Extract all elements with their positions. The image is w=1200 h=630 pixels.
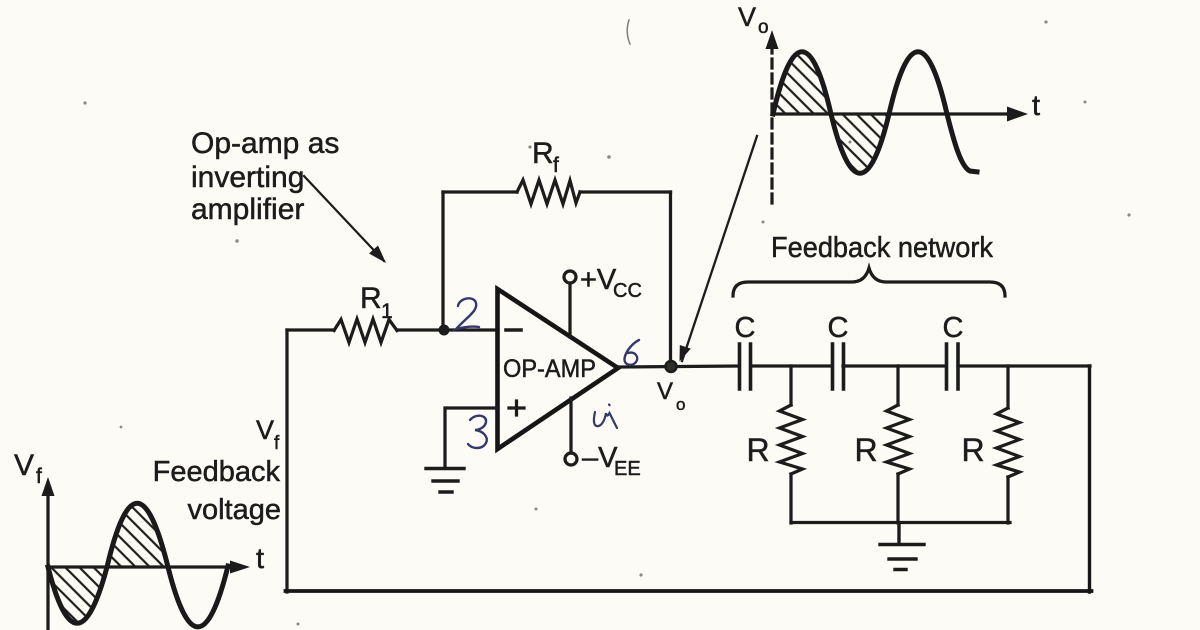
svg-text:f: f: [36, 465, 42, 488]
svg-text:o: o: [758, 17, 769, 38]
Vf waveform horizontal axis: [48, 565, 234, 568]
svg-text:t: t: [256, 543, 264, 575]
svg-text:R: R: [746, 432, 769, 468]
wire: input to op-amp: [397, 328, 498, 331]
capacitor C3: [947, 344, 959, 389]
Vf waveform sine curve: [48, 503, 228, 627]
Vf waveform hatched areas: [48, 503, 168, 623]
pointer line from node to waveform: [682, 136, 757, 361]
terminal circle +Vcc: [564, 271, 576, 283]
svg-text:+V: +V: [580, 264, 617, 296]
svg-text:OP-AMP: OP-AMP: [503, 355, 596, 383]
wire: input segment: [287, 328, 334, 331]
op-amp U1 triangle: [498, 289, 619, 449]
wire: R3 bottom lead: [1006, 477, 1009, 523]
ground (feedback network): [880, 523, 924, 570]
svg-text:Feedback network: Feedback network: [771, 232, 993, 264]
svg-text:CC: CC: [613, 280, 642, 302]
svg-text:–V: –V: [582, 442, 618, 474]
resistor R1: [334, 319, 397, 343]
svg-text:f: f: [553, 154, 559, 177]
handwritten pin number 2: [456, 298, 479, 329]
svg-text:o: o: [676, 395, 685, 414]
resistor R (3rd, vertical): [997, 408, 1020, 477]
wire: tap to R (1st): [789, 366, 792, 405]
wire: feedback left vertical: [441, 192, 444, 330]
wire: feedback right vertical to output node: [669, 192, 672, 366]
wire: R1 bottom lead: [789, 474, 792, 523]
wire: non-inverting input to ground: [445, 408, 498, 468]
Vf waveform axis label: [14, 449, 42, 488]
svg-text:inverting: inverting: [191, 161, 304, 194]
svg-text:R: R: [360, 282, 382, 315]
handwritten pin number 3: [468, 416, 487, 448]
wire: output bus through capacitors: [751, 364, 1090, 367]
wire: right rail: [1088, 366, 1091, 592]
op-amp minus input sign: [506, 328, 521, 332]
annotation arrow to op-amp: [304, 176, 384, 261]
svg-text:voltage: voltage: [187, 494, 281, 526]
wire: feedback top right: [580, 190, 671, 193]
svg-text:C: C: [735, 312, 756, 344]
label -Vee: [582, 442, 641, 480]
wire: bottom rail: [286, 589, 1092, 593]
terminal circle -Vee: [565, 453, 577, 465]
svg-text:EE: EE: [614, 458, 641, 480]
svg-text:R: R: [854, 432, 877, 468]
capacitor C1: [740, 344, 751, 389]
resistor Rf: [517, 180, 580, 204]
svg-text:V: V: [256, 415, 274, 445]
handwritten check squiggle: [594, 405, 617, 429]
svg-text:R: R: [532, 137, 554, 170]
svg-text:f: f: [274, 433, 280, 454]
wire: output from op-amp: [618, 366, 739, 367]
wire: tap to R (3rd): [1006, 366, 1009, 408]
wire: R2 bottom lead: [896, 474, 899, 523]
capacitor C2: [833, 344, 844, 389]
wire: feedback top left: [443, 190, 517, 193]
handwritten pin number 6: [624, 340, 639, 365]
ground (op-amp + input): [426, 469, 464, 493]
svg-text:C: C: [828, 312, 849, 344]
op-amp plus input sign: [509, 401, 524, 415]
label "Feedback voltage": [153, 456, 281, 526]
svg-text:V: V: [657, 378, 673, 405]
svg-text:V: V: [738, 2, 756, 32]
svg-text:Feedback: Feedback: [153, 456, 281, 488]
label +Vcc: [580, 264, 642, 302]
annotation text "Op-amp as inverting amplifier": [191, 127, 339, 226]
Vo waveform horizontal axis: [772, 112, 1012, 115]
svg-text:1: 1: [381, 300, 393, 323]
label R1: [360, 282, 393, 323]
faint crease mark: [627, 20, 630, 44]
Vo waveform vertical dashed axis: [770, 44, 773, 209]
Vf waveform vertical axis: [46, 490, 49, 630]
svg-text:Op-amp as: Op-amp as: [191, 127, 339, 160]
node junction dot (pin 2 node): [439, 325, 450, 336]
label Rf: [532, 137, 559, 177]
svg-text:R: R: [961, 432, 984, 468]
wire: -Vee supply lead: [569, 398, 572, 452]
wire: +Vcc supply lead: [568, 284, 571, 337]
wire: bottom bus of feedback network: [791, 521, 1010, 524]
wire: tap to R (2nd): [896, 366, 899, 405]
resistor R (1st, vertical): [780, 405, 803, 474]
brace over feedback network: [733, 268, 1005, 296]
node Vf label: [256, 415, 280, 454]
label Vo at node: [657, 378, 685, 414]
Vo waveform hatched areas: [773, 52, 889, 174]
resistor R (2nd, vertical): [887, 405, 910, 474]
Vo waveform axis label: [738, 2, 769, 38]
Vo waveform sine curve: [773, 52, 977, 174]
svg-text:t: t: [1032, 90, 1040, 122]
svg-text:C: C: [943, 312, 964, 344]
wire: left feedback rail (Vf): [285, 330, 288, 592]
svg-text:amplifier: amplifier: [191, 193, 304, 226]
svg-text:V: V: [14, 449, 34, 482]
node Vo (output node circle): [666, 361, 677, 372]
